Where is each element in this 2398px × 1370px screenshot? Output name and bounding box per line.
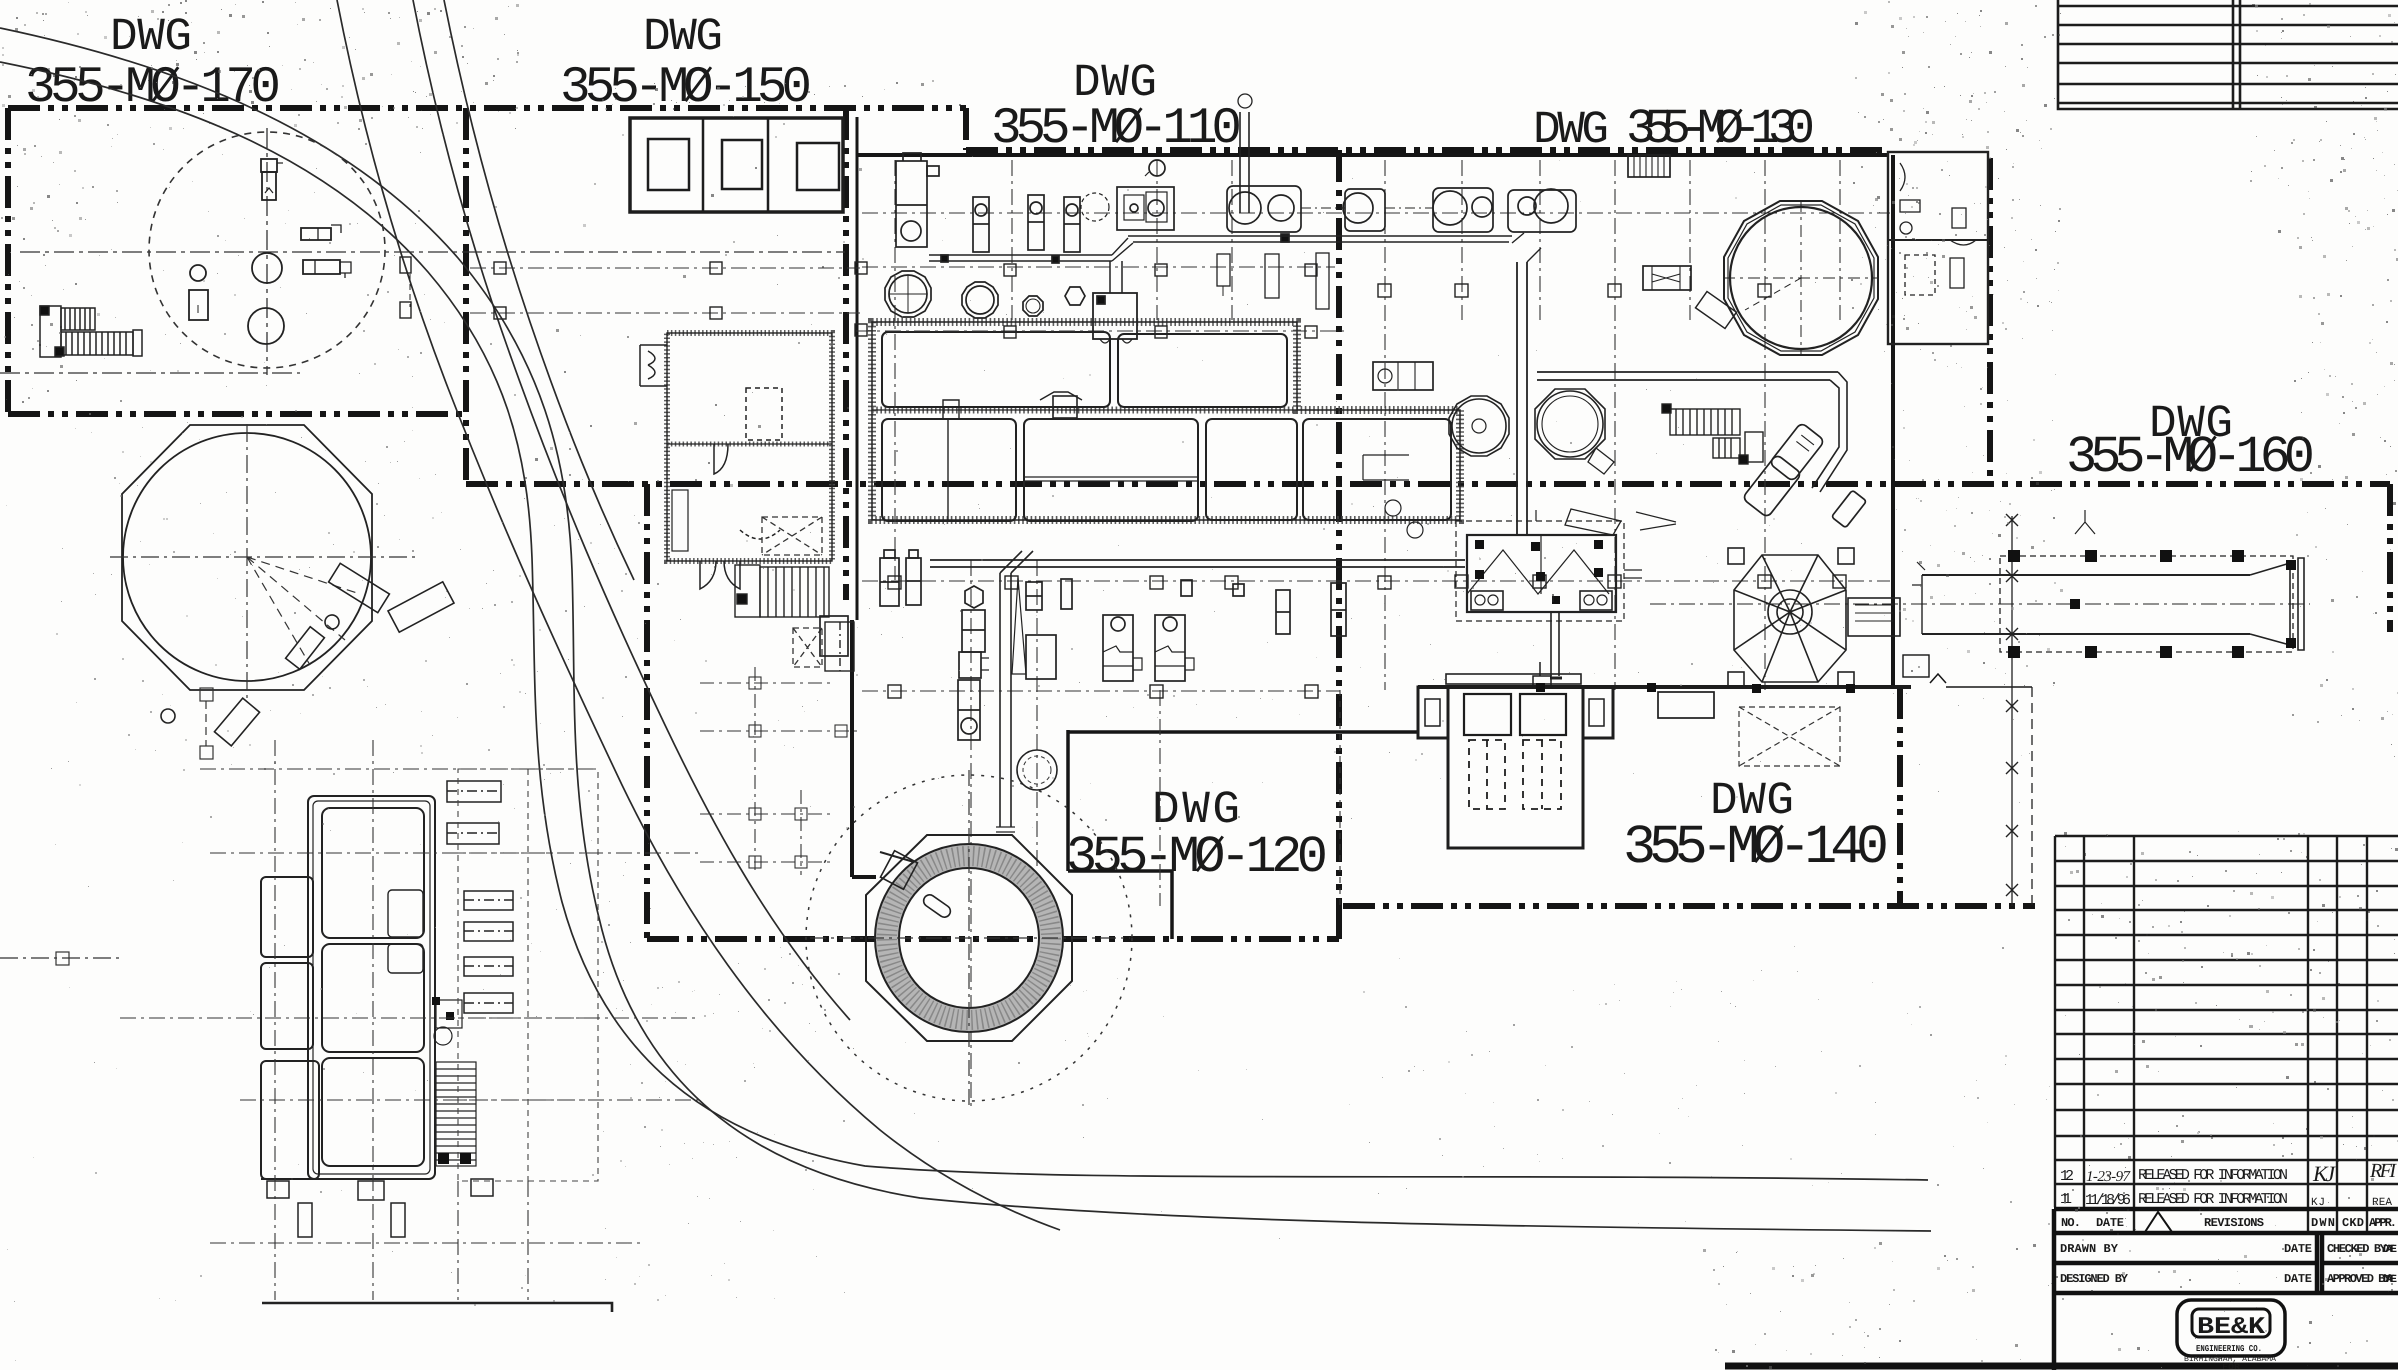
svg-text:DATE: DATE [2383,1244,2397,1256]
svg-text:KJ: KJ [2312,1161,2336,1186]
svg-text:APPR.: APPR. [2369,1216,2397,1230]
svg-text:355-MØ-150: 355-MØ-150 [560,60,812,117]
svg-text:355-MØ-110: 355-MØ-110 [991,101,1242,158]
svg-text:FOR: FOR [2222,1363,2240,1370]
svg-text:CKD: CKD [2342,1216,2364,1230]
svg-text:ENGINEERING CO.: ENGINEERING CO. [2196,1344,2262,1354]
svg-text:11: 11 [2060,1191,2072,1208]
svg-text:DWG: DWG [1533,104,1609,156]
svg-text:12: 12 [2060,1168,2074,1185]
svg-text:355-MØ-140: 355-MØ-140 [1623,816,1889,879]
svg-text:355-MØ-160: 355-MØ-160 [2066,428,2315,487]
svg-text:NO.: NO. [2061,1216,2081,1230]
svg-text:DESIGNED BY: DESIGNED BY [2060,1272,2129,1286]
svg-text:355-MØ-130: 355-MØ-130 [1626,101,1815,157]
svg-text:DATE: DATE [2383,1274,2397,1286]
svg-text:RELEASED FOR INFORMATION: RELEASED FOR INFORMATION [2138,1191,2288,1208]
svg-text:DWG: DWG [643,11,723,63]
svg-text:11/18/96: 11/18/96 [2085,1192,2131,1209]
svg-text:DRAWN BY: DRAWN BY [2060,1242,2119,1256]
svg-text:DATE: DATE [2284,1272,2312,1286]
svg-text:355-MØ-120: 355-MØ-120 [1066,828,1328,887]
svg-text:1-23-97: 1-23-97 [2086,1169,2132,1185]
svg-text:DATE: DATE [2096,1216,2124,1230]
svg-text:KJ: KJ [2311,1197,2325,1209]
svg-text:DWG: DWG [110,11,192,63]
svg-text:RELEASED FOR INFORMATION: RELEASED FOR INFORMATION [2138,1167,2288,1184]
svg-text:DWN: DWN [2311,1216,2335,1230]
svg-text:DATE: DATE [2284,1242,2312,1256]
svg-text:BE&K: BE&K [2197,1314,2266,1341]
svg-text:REVISIONS: REVISIONS [2204,1216,2264,1230]
